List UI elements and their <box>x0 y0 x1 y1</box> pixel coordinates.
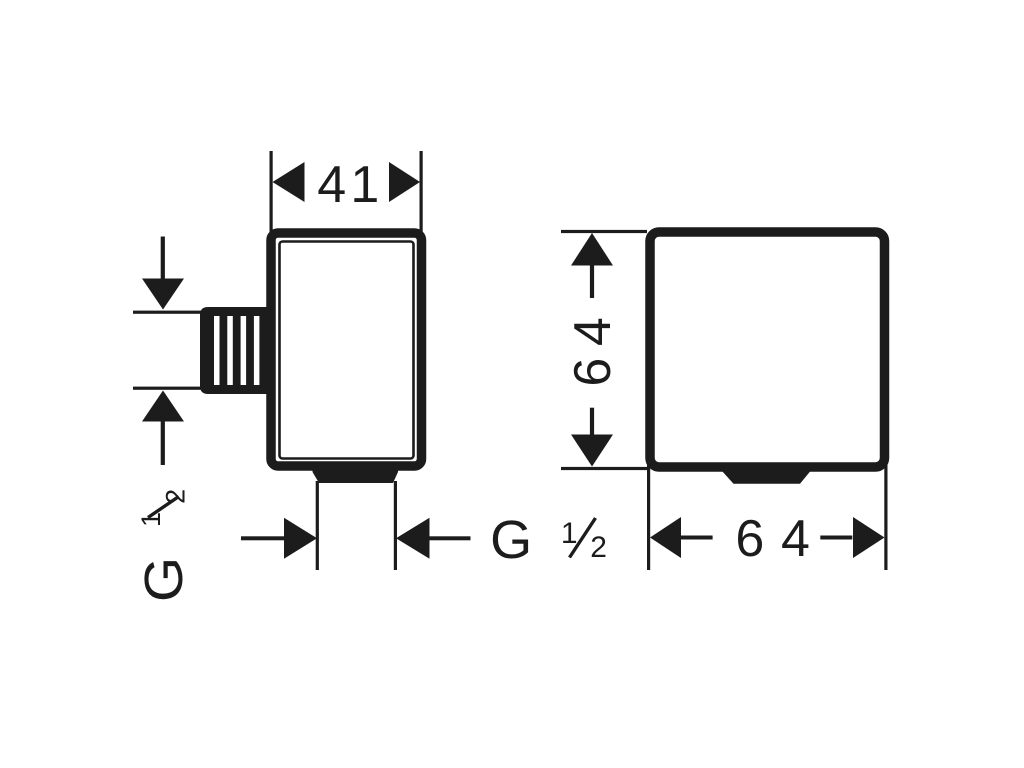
svg-text:1: 1 <box>561 517 578 550</box>
rotated label G 1/2 (left): numeral 1 <box>136 512 166 527</box>
v64 dim: top extension line <box>561 230 647 233</box>
bottom outlet stub (right figure) <box>722 464 811 484</box>
body inner offset line <box>280 242 414 459</box>
svg-text:4: 4 <box>317 156 346 214</box>
svg-text:6: 6 <box>735 510 764 568</box>
pipe dim: up arrow <box>142 391 184 422</box>
h64 dim: left tail <box>681 536 713 540</box>
dim 41: right arrow <box>389 162 420 202</box>
svg-text:1: 1 <box>350 156 379 214</box>
pipe dim: upper extension line <box>133 311 201 314</box>
outlet dim: right arrow <box>396 518 430 559</box>
outlet dim: left arrow <box>284 518 317 559</box>
outlet dim: right tail <box>429 536 471 540</box>
outlet dim: left tail <box>241 536 285 540</box>
outlet dim: left extension line <box>316 481 319 570</box>
v64 dim: bottom arrow <box>571 435 613 467</box>
svg-text:G: G <box>133 557 194 602</box>
square escutcheon <box>650 232 885 467</box>
threaded pipe body <box>200 307 272 394</box>
v64 dim: bottom tail <box>590 408 594 438</box>
dim 41: left arrow <box>273 162 305 202</box>
svg-text:4: 4 <box>564 317 622 346</box>
dim 41: right extension line <box>420 151 423 232</box>
h64 dim: right tail <box>820 536 852 540</box>
svg-text:G: G <box>490 510 532 570</box>
dim 41: left extension line <box>270 151 273 232</box>
v64 dim: rotated text 64 <box>564 317 622 387</box>
pipe dim: lower tail <box>161 420 165 465</box>
svg-text:2: 2 <box>161 489 191 504</box>
body outer rounded rect <box>271 233 422 466</box>
svg-text:4: 4 <box>781 510 810 568</box>
pipe dim: lower extension line <box>133 387 201 390</box>
svg-text:2: 2 <box>590 531 607 564</box>
h64 dim: right arrow <box>853 517 885 558</box>
pipe dim: upper tail <box>161 237 165 280</box>
outlet dim: right extension line <box>394 481 397 570</box>
h64 dim: right extension line <box>884 465 887 570</box>
bottom outlet stub (left figure) <box>313 464 399 483</box>
thread stripe 3 <box>241 316 247 385</box>
v64 dim: top arrow <box>571 233 613 266</box>
rotated label G 1/2 (left): letter G <box>133 557 194 602</box>
rotated label G 1/2 (left): fraction slash <box>148 497 179 518</box>
v64 dim: top tail <box>590 264 594 298</box>
svg-text:6: 6 <box>564 358 622 387</box>
pipe dim: down arrow <box>142 279 184 310</box>
thread stripe 1 <box>214 316 220 385</box>
label G 1/2 (horizontal) <box>490 510 607 570</box>
v64 dim: bottom extension line <box>561 467 647 470</box>
thread stripe 4 <box>254 316 260 385</box>
h64 dim: left extension line <box>647 465 650 570</box>
thread stripe 2 <box>227 316 233 385</box>
rotated label G 1/2 (left): numeral 2 <box>161 489 191 504</box>
h64 dim: left arrow <box>650 517 681 558</box>
